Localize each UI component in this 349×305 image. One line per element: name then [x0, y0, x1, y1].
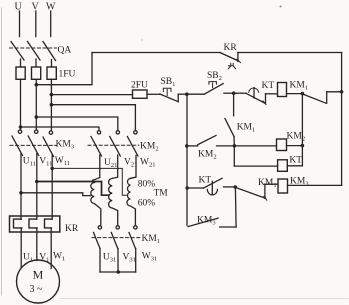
switch QA pole 2 blade — [28, 42, 41, 61]
wire U11 tap to winding1 — [21, 193, 91, 196]
wire W phase drop — [50, 11, 52, 37]
svg-text:KR: KR — [65, 224, 79, 234]
contactor KM2 pole2 blade — [110, 137, 121, 157]
node W11 tap junction — [50, 167, 54, 171]
wire KT coil to node C branch — [287, 165, 302, 167]
relay KR heater element 1 — [14, 219, 22, 228]
svg-text:V11: V11 — [39, 157, 52, 168]
contactor KM3 linkage dashed — [10, 144, 57, 146]
contactor KM3 pole1 terminal — [18, 130, 21, 133]
contactor KM2 pole1 terminal — [97, 131, 100, 134]
wire V31 lower — [117, 249, 119, 273]
contact KT delay arc (rung 1) — [249, 88, 259, 92]
node A junction — [185, 92, 189, 96]
relay KR heater element 3 — [45, 219, 53, 228]
contact KR NC blade (top line) — [220, 53, 238, 62]
contact right riser to rail — [326, 92, 328, 103]
node C junction — [301, 92, 305, 96]
wire node C down branch — [301, 94, 303, 166]
wire W31 lower — [135, 249, 137, 273]
wire KT contact to node E — [224, 186, 236, 188]
node W control tap junction — [50, 93, 54, 97]
wire rung2 to KM2 contact — [187, 145, 198, 147]
node V11 tap junction — [35, 180, 39, 184]
motor M circle — [17, 260, 60, 303]
contactor KM2 linkage dashed — [88, 144, 139, 146]
contact KM1 NC blade end tick — [264, 197, 267, 201]
svg-text:SB2: SB2 — [207, 71, 222, 82]
svg-text:3 ~: 3 ~ — [30, 284, 44, 295]
svg-text:KM1: KM1 — [142, 234, 161, 245]
node C2 junction (KM2 coil out) — [301, 144, 305, 148]
svg-text:SB1: SB1 — [161, 77, 176, 88]
node rung2 left junction — [185, 144, 189, 148]
svg-text:U11: U11 — [23, 157, 36, 168]
scan edge artifact bottom — [60, 298, 348, 300]
wire KM3 coil to right rail — [288, 184, 342, 186]
svg-text:W21: W21 — [140, 158, 155, 169]
wire rung2 to KM2 coil — [217, 145, 277, 147]
svg-text:KM2: KM2 — [198, 150, 217, 161]
contactor KM3 pole1 blade — [12, 136, 23, 156]
button SB2 NO blade — [204, 84, 223, 95]
coil KT box — [278, 160, 288, 172]
svg-text:W1: W1 — [53, 252, 65, 263]
wire right control rail — [341, 53, 343, 186]
svg-text:U31: U31 — [103, 253, 116, 264]
node rung4 left junction — [185, 186, 189, 190]
wire QA pole2 to fuse — [35, 59, 37, 67]
contact KT right riser (rung 1) — [265, 94, 267, 103]
contact KT delay stem (rung 4) — [211, 181, 213, 194]
contactor KM2 pole3 terminal — [134, 131, 137, 134]
wire KM1 coil to node C — [287, 93, 303, 95]
wire W11 tap to winding3 — [52, 168, 127, 195]
svg-text:KM1: KM1 — [258, 178, 277, 189]
contact NO blade to right rail — [303, 94, 326, 103]
wire W11 lower — [51, 155, 53, 220]
node U11 tap junction — [19, 191, 23, 195]
wire SB2 to node B — [224, 92, 234, 94]
wire node B down to KM1 contact — [233, 93, 235, 116]
wire KM2 pole3 lower — [130, 156, 136, 179]
scan speck mid top — [141, 39, 142, 40]
coil KM2 box — [277, 139, 287, 151]
wire star point join — [100, 271, 136, 273]
contact KM1 NC right riser — [264, 184, 266, 198]
svg-text:W31: W31 — [142, 252, 157, 263]
contactor KM1 pole1 blade — [94, 233, 101, 249]
svg-text:KM1: KM1 — [290, 81, 309, 92]
node V control tap junction — [35, 83, 39, 87]
wire 2FU to SB1 — [147, 93, 160, 95]
relay KR heater box — [10, 216, 60, 232]
contact KT delay stem (rung 1) — [253, 88, 255, 98]
contactor KM3 pole3 terminal — [49, 131, 52, 134]
svg-text:U: U — [15, 2, 23, 13]
transformer TM winding 2 — [109, 178, 118, 224]
wire rung5 to riser — [220, 226, 236, 228]
contact KR thermal element mark — [228, 63, 235, 68]
wire U1 to motor — [20, 228, 22, 268]
contact KM1 NO blade (vertical branch) — [225, 119, 234, 137]
svg-text:1FU: 1FU — [59, 70, 76, 80]
switch QA pole 3 blade — [43, 42, 56, 61]
wire QA pole1 to fuse — [20, 59, 22, 67]
wire KM2 pole2 lower — [112, 155, 117, 178]
node B junction — [232, 91, 236, 95]
button SB1 right riser — [177, 94, 179, 102]
contact KM2 NO blade (rung 2) — [198, 136, 216, 145]
wire rung5 riser to node E — [234, 188, 237, 227]
wire top control line left of KR — [92, 52, 220, 54]
svg-text:KT: KT — [262, 81, 275, 91]
node right rail junction — [340, 90, 344, 94]
wire V phase below fuse — [35, 79, 37, 130]
wire U phase below fuse — [20, 79, 22, 130]
button SB2 actuator — [209, 82, 217, 88]
fuse 1FU pole 3 — [47, 67, 56, 79]
contact KT delayed blade (rung 4) — [204, 178, 223, 188]
wire KM2 pole1 lower — [93, 155, 100, 180]
wire V phase drop — [35, 11, 37, 37]
contactor KM2 pole1 blade — [91, 137, 102, 157]
transformer TM winding 1 — [91, 180, 101, 224]
contactor KM3 pole2 blade — [28, 136, 39, 156]
wire W1 to motor — [50, 228, 52, 269]
contactor KM1 pole3 blade — [129, 233, 136, 249]
fuse 1FU pole 2 — [32, 67, 41, 79]
svg-text:2FU: 2FU — [131, 81, 148, 91]
svg-text:TM: TM — [154, 189, 169, 199]
wire U11 lower — [20, 154, 22, 220]
wire U phase drop — [19, 11, 21, 37]
svg-text:QA: QA — [58, 46, 72, 56]
svg-text:KR: KR — [224, 43, 238, 53]
contactor KM3 pole3 blade — [43, 137, 54, 157]
contact KT blade end tick — [263, 101, 266, 105]
wire KM2 coil to node C2 — [287, 145, 303, 147]
relay KR heater element 2 — [29, 219, 37, 228]
contactor KM1 linkage dashed — [92, 237, 140, 239]
wire node B to KT contact — [234, 92, 247, 94]
contact KT delayed NC blade (rung 1) — [246, 93, 264, 103]
contact KR blade end tick — [237, 59, 241, 62]
wire top control line right of KR — [238, 52, 342, 54]
svg-text:U21: U21 — [104, 158, 117, 169]
coil KM1 box — [278, 83, 287, 97]
wire V1 to motor — [36, 228, 38, 261]
wire W feed to KM2 — [51, 105, 135, 131]
coil KM3 box — [278, 179, 288, 193]
contactor KM1 pole1 terminal — [98, 226, 101, 229]
wire rung4 to KT contact — [187, 187, 203, 189]
wire left control rail — [186, 94, 188, 225]
svg-text:KT: KT — [199, 176, 212, 186]
wire U31 lower — [99, 249, 101, 273]
svg-text:KT: KT — [289, 156, 302, 166]
svg-text:60%: 60% — [138, 199, 156, 209]
button SB1 NC blade — [160, 94, 178, 102]
contact KM1 NC blade (rung 4) — [236, 188, 266, 199]
svg-text:M: M — [33, 268, 44, 282]
wire to KM3 coil — [265, 183, 278, 185]
fuse 2FU box — [133, 90, 148, 98]
node V feed junction — [35, 115, 39, 119]
button SB1 actuator — [163, 88, 171, 95]
wire U feed to KM2 — [21, 127, 100, 131]
wire control feed from V to top line — [36, 53, 92, 85]
contact KR right terminal riser — [237, 53, 239, 62]
svg-text:KM3: KM3 — [197, 216, 216, 227]
contactor KM1 pole3 terminal — [134, 226, 137, 229]
switch QA pole 1 blade — [11, 42, 24, 61]
wire KM1 contact to node D — [233, 137, 235, 146]
contactor KM2 pole2 terminal — [116, 131, 119, 134]
svg-text:KM1: KM1 — [237, 123, 256, 134]
svg-text:KM2: KM2 — [140, 142, 159, 153]
contactor KM1 pole2 terminal — [116, 226, 119, 229]
fuse 1FU pole 1 — [16, 67, 25, 79]
node E junction — [234, 185, 238, 189]
wire riser to right rail — [327, 91, 342, 93]
scan edge artifact left — [1, 8, 3, 295]
contactor KM3 pole2 terminal — [35, 130, 38, 133]
wire QA pole3 to fuse — [51, 60, 53, 68]
node U feed junction — [19, 125, 23, 129]
node star point junction — [117, 270, 121, 274]
node D junction — [233, 144, 237, 148]
svg-text:V31: V31 — [123, 253, 136, 264]
wire W tap to 2FU — [51, 94, 132, 96]
wire SB1 to node A — [178, 93, 187, 95]
switch QA linkage dashed — [10, 47, 57, 49]
wire V11 tap to winding2 — [37, 182, 109, 196]
contactor KM1 pole2 blade — [111, 233, 118, 249]
node W feed tap junction — [50, 103, 54, 107]
wire node D down to KT rung — [233, 146, 235, 166]
wire W phase below fuse — [50, 79, 52, 131]
wire to KT coil — [234, 165, 277, 167]
wire V11 lower — [36, 154, 38, 220]
wire node A to SB2 — [187, 93, 204, 95]
svg-text:KM3: KM3 — [56, 140, 75, 151]
wire V feed to KM2 — [36, 117, 118, 131]
contact KM3 NO blade (rung 5 self-hold) — [188, 218, 218, 226]
transformer TM winding 3 — [127, 178, 136, 224]
wire KT to KM1 coil — [266, 93, 278, 95]
svg-text:W11: W11 — [55, 156, 70, 167]
contact KT delay cup (rung 4) — [207, 189, 217, 195]
contactor KM2 pole3 blade — [127, 137, 137, 157]
scan speck top right — [280, 6, 282, 8]
